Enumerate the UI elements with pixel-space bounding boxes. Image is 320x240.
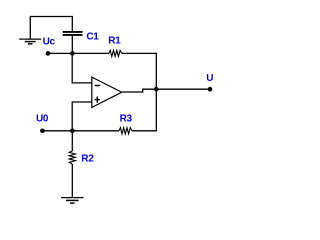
- wire: ground riser and top loop to C1 top plate: [30, 17, 72, 39]
- svg-text:C1: C1: [86, 32, 99, 43]
- svg-text:R1: R1: [108, 36, 121, 47]
- wire: R3 to U0 node: [72, 130, 119, 132]
- wire: C1 bottom lead: [71, 36, 73, 54]
- resistor R2: [69, 151, 75, 164]
- junction: C1 / inverting-input node: [70, 51, 75, 56]
- wire: feedback vertical (output node down to R3): [132, 89, 156, 131]
- capacitor C1: [63, 32, 83, 35]
- wire: output node to U terminal: [156, 88, 210, 90]
- terminal Uc: [46, 51, 51, 56]
- op-amp U1: [92, 77, 122, 107]
- wire: node down to R2: [71, 131, 73, 151]
- svg-text:R3: R3: [120, 114, 133, 125]
- wire: inverting input (from node to op-amp minus): [72, 53, 92, 83]
- resistor R3: [119, 128, 132, 134]
- terminal U0: [40, 129, 45, 134]
- terminal U: [208, 87, 213, 92]
- resistor R1: [109, 50, 122, 56]
- wire: R2 to ground: [71, 164, 73, 197]
- svg-text:R2: R2: [81, 154, 94, 165]
- ground (bottom, R2): [61, 198, 84, 204]
- svg-text:U: U: [206, 73, 213, 84]
- ground (top-left, Uc reference): [19, 39, 41, 44]
- wire: U0 terminal to node: [42, 130, 72, 132]
- junction: U0 / non-inverting node: [70, 129, 75, 134]
- wire: op-amp output with step up to output node: [122, 89, 157, 92]
- junction: output node: [154, 87, 159, 92]
- wire: Uc terminal to R1: [48, 52, 109, 54]
- svg-text:Uc: Uc: [43, 37, 56, 48]
- wire: R1 to feedback corner: [122, 53, 156, 89]
- svg-text:U0: U0: [36, 114, 49, 125]
- wire: non-inverting input (from op-amp plus down to U0 node): [72, 102, 92, 131]
